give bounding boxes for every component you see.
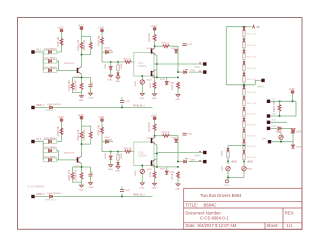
resistor R104 xyxy=(98,35,104,46)
wire row3 to Q200 base xyxy=(57,159,78,161)
power +12V P104 xyxy=(151,24,157,30)
svg-text:D107: D107 xyxy=(172,48,178,50)
resistor R209 tap xyxy=(117,152,123,161)
drawing frame border xyxy=(18,18,303,230)
junction rail right xyxy=(177,166,179,168)
svg-text:GND: GND xyxy=(79,100,84,102)
trimpot below IC2B xyxy=(135,166,145,183)
wire Q101 collector xyxy=(154,41,156,48)
svg-text:TITLE:: TITLE: xyxy=(186,203,199,208)
svg-text:D105: D105 xyxy=(105,63,107,69)
diode D202 row3 xyxy=(43,155,57,162)
diode D206 tap xyxy=(117,160,120,165)
svg-text:+12V: +12V xyxy=(289,87,295,91)
svg-text:+12V: +12V xyxy=(78,23,84,27)
svg-text:Two Bus Drivers B684: Two Bus Drivers B684 xyxy=(200,193,242,198)
svg-text:D102 BAS16: D102 BAS16 xyxy=(44,66,57,69)
resistor R307 xyxy=(243,100,257,106)
ground AGND chain xyxy=(224,180,231,187)
svg-text:+12V: +12V xyxy=(296,131,302,134)
junction IC2 bottom xyxy=(142,75,144,77)
wire chain lower seg 3 xyxy=(243,117,245,119)
svg-text:GND: GND xyxy=(115,81,120,83)
ground tap1 xyxy=(108,165,113,171)
svg-text:GND: GND xyxy=(115,171,120,173)
svg-text:R101 4.7k: R101 4.7k xyxy=(77,39,80,51)
trimpot below IC2 xyxy=(135,76,145,93)
svg-text:9/4/2017 9:12:07 AM: 9/4/2017 9:12:07 AM xyxy=(198,223,237,228)
svg-text:R302 10k: R302 10k xyxy=(247,45,257,47)
resistor R210 series xyxy=(124,148,133,153)
power +12V P302 xyxy=(292,130,302,134)
wire Q200 collector up xyxy=(80,144,83,157)
svg-text:Q101: Q101 xyxy=(147,48,153,50)
svg-text:C204: C204 xyxy=(187,134,193,136)
pad J301 xyxy=(257,79,265,89)
svg-text:C104: C104 xyxy=(187,44,193,46)
diode D304 xyxy=(243,62,246,65)
svg-text:R308 10k: R308 10k xyxy=(247,114,257,116)
svg-text:GND: GND xyxy=(108,169,113,171)
title block texts xyxy=(186,193,295,228)
svg-text:D200 BAS16: D200 BAS16 xyxy=(44,137,57,140)
svg-text:D315: D315 xyxy=(296,147,302,149)
wire chain to bias node xyxy=(243,160,245,163)
ground tap2 xyxy=(115,167,120,173)
svg-text:Q201: Q201 xyxy=(147,138,153,140)
svg-text:D209 1N4148: D209 1N4148 xyxy=(47,193,61,195)
junction tap1 xyxy=(110,151,112,153)
junction chain top xyxy=(243,26,245,28)
resistor R109 tap xyxy=(117,62,123,71)
wire control 1 xyxy=(35,107,153,109)
diode D204 xyxy=(102,137,113,143)
junction output node xyxy=(156,63,158,65)
ground tap1 xyxy=(108,75,113,81)
svg-text:1/1: 1/1 xyxy=(287,223,293,228)
resistor R218 xyxy=(171,172,179,184)
wire chain lower seg 4 xyxy=(243,127,245,129)
wire P202 stem xyxy=(82,119,91,131)
svg-text:Z100: Z100 xyxy=(190,70,196,72)
wire left col mid xyxy=(227,157,229,164)
svg-text:R302: R302 xyxy=(247,169,253,171)
diode D100 row1 xyxy=(43,47,57,53)
op-amp IC2A box xyxy=(134,53,154,77)
ground tap2 xyxy=(115,77,120,83)
svg-text:D109 1N4148: D109 1N4148 xyxy=(47,104,61,106)
svg-text:D100 BAS16: D100 BAS16 xyxy=(44,47,57,50)
svg-text:+12V: +12V xyxy=(58,115,64,119)
wire sub bottom xyxy=(73,87,91,96)
diode D308 xyxy=(243,107,246,110)
svg-text:R219 1k: R219 1k xyxy=(162,132,171,134)
wire R210 to IC2 xyxy=(131,151,134,153)
wire chain seg 4 xyxy=(243,71,245,73)
resistor R219 xyxy=(162,132,171,137)
diode D302 xyxy=(243,39,246,42)
wire P103 stem xyxy=(101,32,103,38)
diode D313 xyxy=(227,148,230,151)
wire P201 to R205 xyxy=(61,122,63,142)
svg-text:R211: R211 xyxy=(135,170,137,176)
resistor R116 xyxy=(150,77,156,93)
ground GND S1 xyxy=(79,96,84,102)
wire pad to diode row xyxy=(35,51,44,53)
svg-text:DRV2: DRV2 xyxy=(195,155,202,157)
svg-text:1N4148: 1N4148 xyxy=(105,140,113,142)
svg-text:R311 10k: R311 10k xyxy=(247,146,257,148)
wire chain seg 5 xyxy=(243,82,245,84)
junction Q200 collector xyxy=(81,143,83,145)
wire output 1 xyxy=(157,152,203,154)
ground trimpot xyxy=(140,93,145,99)
junction sense row xyxy=(279,115,281,117)
resistor R204 xyxy=(98,124,104,135)
svg-text:+12V: +12V xyxy=(98,115,104,119)
svg-text:GND: GND xyxy=(108,80,113,82)
svg-text:PWM_HI_1: PWM_HI_1 xyxy=(133,106,145,108)
svg-text:D207: D207 xyxy=(172,137,178,139)
capacitor C104 xyxy=(183,44,193,46)
svg-text:R304 10k: R304 10k xyxy=(247,68,257,70)
svg-text:+BIAS: +BIAS xyxy=(247,160,254,163)
ground right block xyxy=(290,129,295,135)
junction snubber bottom xyxy=(227,177,229,179)
svg-text:GND: GND xyxy=(152,188,157,190)
wire diode rows left bus xyxy=(42,142,44,160)
wire R104 down to rail xyxy=(102,44,124,62)
diode D200 row1 xyxy=(43,137,57,144)
svg-text:R306 10k: R306 10k xyxy=(247,92,257,94)
svg-text:+12V: +12V xyxy=(58,26,64,30)
svg-text:R309 10k: R309 10k xyxy=(247,125,257,127)
resistor R306 xyxy=(243,89,257,95)
svg-text:R310 10k: R310 10k xyxy=(247,135,257,137)
svg-text:D201 BAS16: D201 BAS16 xyxy=(44,146,57,149)
diode D307 xyxy=(243,97,246,100)
wire P102 stem xyxy=(82,30,91,42)
svg-text:D205: D205 xyxy=(105,152,107,158)
capacitor C102 xyxy=(120,97,130,107)
op-amp IC2B box xyxy=(134,142,154,166)
wire R119 to feedback column xyxy=(169,46,178,72)
ground cap C200 xyxy=(89,183,94,189)
svg-text:1N4148: 1N4148 xyxy=(105,50,113,52)
diode D101 row2 xyxy=(43,57,57,64)
svg-text:R107 470: R107 470 xyxy=(68,80,71,91)
transistor Q201 xyxy=(147,137,155,144)
wire node to R219 xyxy=(155,135,163,137)
wire feed row xyxy=(270,101,296,116)
resistor R208 xyxy=(75,169,83,180)
svg-text:Q102: Q102 xyxy=(147,80,153,82)
svg-text:DRV1: DRV1 xyxy=(195,67,202,69)
svg-text:+12V: +12V xyxy=(98,26,104,30)
junction chain mid xyxy=(243,84,245,86)
pad J104 xyxy=(31,104,45,109)
junction rail left xyxy=(156,166,158,168)
transistor Q202 xyxy=(147,160,155,171)
wire pad to diode row xyxy=(35,141,44,143)
power +12V P204 xyxy=(151,113,157,119)
svg-text:R202 4.7k: R202 4.7k xyxy=(83,129,86,141)
pad J101 xyxy=(31,48,42,53)
ground trimpot ch2 xyxy=(140,183,145,189)
svg-text:R305: R305 xyxy=(222,150,224,156)
svg-text:B684C: B684C xyxy=(204,203,217,208)
wire Q201 collector xyxy=(154,131,156,138)
svg-text:R307 10k: R307 10k xyxy=(247,103,257,105)
junction C202 xyxy=(121,196,123,198)
resistor R205 xyxy=(57,125,63,136)
wire row1 to node xyxy=(57,141,62,143)
zener D105 tap xyxy=(105,62,112,75)
junction output node xyxy=(156,153,158,155)
svg-text:PWM_1: PWM_1 xyxy=(36,104,45,107)
resistor R304 xyxy=(243,65,257,71)
resistor R215 xyxy=(148,122,156,132)
svg-text:PWM_2: PWM_2 xyxy=(36,193,45,196)
wire emitter rail S2 xyxy=(73,167,91,174)
resistor R312 xyxy=(243,154,257,160)
junction tap2 xyxy=(117,61,119,63)
svg-text:D101 BAS16: D101 BAS16 xyxy=(44,57,57,60)
diode D201 row2 xyxy=(43,146,57,153)
resistor R108 xyxy=(75,80,83,91)
diode D106 tap xyxy=(117,71,120,76)
svg-text:IN_1: IN_1 xyxy=(36,48,42,51)
power +12V P103 xyxy=(98,26,104,32)
diode D309 xyxy=(243,118,246,121)
wire Q200 emitter down xyxy=(80,163,83,167)
diode D314 xyxy=(278,127,292,134)
zener D315 xyxy=(291,145,301,149)
svg-text:R117: R117 xyxy=(160,79,166,81)
wire snubber top xyxy=(228,146,244,149)
wire snubber bottom xyxy=(228,178,244,180)
junction feed row a xyxy=(279,101,281,103)
svg-text:+12V: +12V xyxy=(151,24,157,28)
junction Q201 collector node xyxy=(154,135,156,137)
resistor R101 xyxy=(77,39,83,51)
wire chain seg 3 xyxy=(243,59,245,61)
svg-text:R203 4.7k: R203 4.7k xyxy=(65,153,76,155)
svg-text:R301 10k: R301 10k xyxy=(247,34,257,36)
junction rail right xyxy=(177,77,179,79)
resistor R110 series xyxy=(124,58,133,63)
diode D311 xyxy=(243,140,246,143)
svg-text:R303 10k: R303 10k xyxy=(247,56,257,58)
wire output node xyxy=(154,54,157,77)
svg-text:C200: C200 xyxy=(91,170,93,176)
diode D303 xyxy=(243,50,246,53)
resistor R305 xyxy=(243,77,257,83)
title block outline xyxy=(184,188,302,229)
junction emitter rail xyxy=(81,77,83,79)
resistor R309 xyxy=(243,122,257,128)
svg-text:VB: VB xyxy=(256,26,260,29)
svg-text:R108 470: R108 470 xyxy=(75,80,78,91)
wire P101 to R105 and node xyxy=(61,32,63,52)
resistor R216 xyxy=(150,167,156,183)
svg-text:C100: C100 xyxy=(91,81,93,87)
zener D205 tap xyxy=(105,152,112,165)
junction output2 xyxy=(177,71,179,73)
svg-text:R111: R111 xyxy=(135,80,137,86)
junction C102 xyxy=(121,107,123,109)
pad J202 xyxy=(199,151,207,154)
junction IC2B bottom xyxy=(142,165,144,167)
capacitor C204 xyxy=(183,133,193,135)
svg-text:D202 BAS16: D202 BAS16 xyxy=(44,155,57,158)
resistor R115 xyxy=(148,32,156,42)
wire aux net xyxy=(271,140,293,145)
wire P204 stem xyxy=(154,120,156,124)
wire emitter rail lower xyxy=(153,76,179,78)
svg-text:PWM_HI_2: PWM_HI_2 xyxy=(45,199,57,201)
wire sense row xyxy=(270,115,296,117)
svg-text:R105 10k: R105 10k xyxy=(57,36,60,47)
resistor R303 xyxy=(243,54,257,60)
junction rail left xyxy=(156,77,158,79)
svg-text:GND: GND xyxy=(272,126,277,128)
resistor R118 xyxy=(171,82,179,94)
diode D108 xyxy=(160,77,175,84)
wire row2 to row3 xyxy=(57,61,59,70)
pad J105 xyxy=(31,193,45,198)
svg-text:SNS: SNS xyxy=(272,113,277,115)
diode D310 xyxy=(243,129,246,132)
svg-text:GND: GND xyxy=(79,190,84,192)
wire emitter rail S1 xyxy=(73,78,91,85)
wire chain mid tap xyxy=(226,80,261,84)
wire R219 to feedback column xyxy=(169,136,178,162)
svg-text:R210 1k: R210 1k xyxy=(124,148,133,150)
wire gnd row xyxy=(270,127,277,129)
svg-text:R110 1k: R110 1k xyxy=(124,58,133,60)
wire Q100 collector up xyxy=(80,55,83,68)
wire P203 stem xyxy=(101,122,103,128)
resistor R202 xyxy=(83,129,92,141)
wire control 2 xyxy=(35,196,153,198)
svg-text:R304: R304 xyxy=(276,131,282,133)
resistor R310 xyxy=(243,133,257,139)
wire output 2 xyxy=(178,161,203,163)
svg-text:Date:: Date: xyxy=(186,223,196,228)
junction bias node xyxy=(243,161,245,163)
power +12V P102 xyxy=(78,23,84,29)
diode D208 xyxy=(160,167,175,174)
ground R118 xyxy=(175,94,180,100)
trimpot R306 xyxy=(222,165,230,178)
diode D207 xyxy=(172,137,178,142)
capacitor C200 xyxy=(89,170,94,176)
pad J103 xyxy=(199,70,207,73)
resistor R102 xyxy=(83,39,92,51)
svg-text:GND: GND xyxy=(152,98,157,100)
svg-text:C102: C102 xyxy=(124,101,130,103)
svg-text:R208 470: R208 470 xyxy=(75,169,78,180)
svg-text:+BIAS: +BIAS xyxy=(231,160,238,163)
svg-text:GND: GND xyxy=(175,188,180,190)
wire output 2 xyxy=(178,71,203,73)
svg-text:R218: R218 xyxy=(171,173,174,179)
ground GND S2 xyxy=(79,185,84,191)
resistor R311 xyxy=(243,143,257,149)
junction Q100 collector xyxy=(81,54,83,56)
pad J306 xyxy=(262,138,271,143)
svg-text:GND: GND xyxy=(89,98,94,100)
junction tap2 xyxy=(117,151,119,153)
wire chain lower seg 5 xyxy=(243,138,245,140)
resistor R303 xyxy=(273,100,281,116)
power +12V P301 xyxy=(289,87,295,93)
svg-text:AUX: AUX xyxy=(272,119,277,122)
svg-text:D108: D108 xyxy=(169,83,175,85)
diode D305 xyxy=(243,73,246,76)
diode D102 row3 xyxy=(43,66,57,73)
pad J303 xyxy=(267,113,277,117)
svg-text:AGND: AGND xyxy=(224,184,231,187)
wire chain lower seg 6 xyxy=(243,149,245,151)
pad J302 xyxy=(267,99,276,103)
diode D107 xyxy=(172,48,178,53)
wire sub bottom xyxy=(73,176,91,185)
svg-text:R201 4.7k: R201 4.7k xyxy=(77,129,80,141)
svg-text:VBIAS: VBIAS xyxy=(257,86,264,89)
svg-text:R217: R217 xyxy=(160,169,166,171)
wire row3 to Q100 base xyxy=(57,69,78,71)
svg-text:LM2904: LM2904 xyxy=(138,155,147,158)
resistor R305 xyxy=(222,150,230,157)
svg-text:C-CS-6684-B: C-CS-6684-B xyxy=(27,185,44,189)
wire aux row xyxy=(270,121,287,123)
zener D203 output xyxy=(184,159,196,163)
wire chain seg 1 xyxy=(243,37,245,39)
resistor R308 xyxy=(243,111,257,117)
capacitor C100 xyxy=(89,81,94,87)
wire P104 stem xyxy=(154,30,156,34)
pad J305 xyxy=(267,126,277,130)
wire chain lower seg 7 xyxy=(243,160,245,162)
wire resistor stack bottom xyxy=(82,49,91,55)
wire node to R119 xyxy=(155,45,163,47)
ground R116 xyxy=(152,94,157,100)
svg-text:GND: GND xyxy=(175,99,180,101)
resistor R302 xyxy=(243,42,257,48)
svg-text:LM2904: LM2904 xyxy=(138,65,147,68)
wire R110 to IC2 xyxy=(131,61,134,63)
wire chain lower seg 2 xyxy=(243,106,245,108)
transistor Q101 xyxy=(147,48,155,55)
diode D109 xyxy=(47,104,61,109)
svg-text:R209: R209 xyxy=(121,152,123,158)
svg-text:R207 470: R207 470 xyxy=(68,169,71,180)
svg-text:+12V: +12V xyxy=(151,113,157,117)
wire row2 to row3 xyxy=(57,151,59,160)
svg-text:R303 1.0k: R303 1.0k xyxy=(273,100,276,112)
svg-text:Q202: Q202 xyxy=(147,169,153,171)
pad J203 xyxy=(199,160,207,163)
svg-text:GND: GND xyxy=(140,98,145,100)
svg-text:R205 10k: R205 10k xyxy=(57,125,60,136)
transistor Q102 xyxy=(147,70,155,81)
svg-text:R109: R109 xyxy=(121,63,123,69)
svg-text:R312 10k: R312 10k xyxy=(247,157,257,159)
wire P301 stem xyxy=(292,94,294,102)
wire diode rows left bus xyxy=(42,52,44,70)
